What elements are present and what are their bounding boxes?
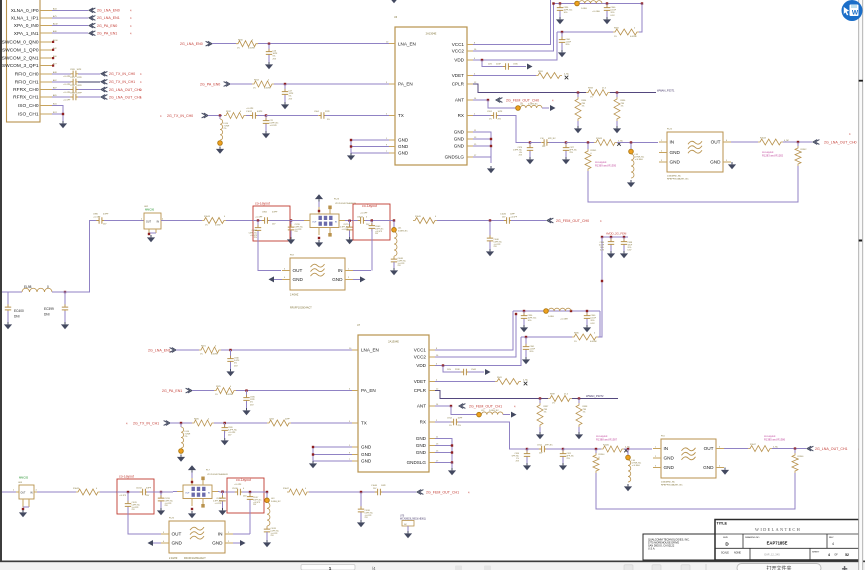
svg-text:U70: U70	[400, 516, 405, 518]
wire RX riser b	[458, 422, 527, 449]
ground C9721	[346, 237, 354, 244]
svg-text:2G_LNA_OUT_CH1: 2G_LNA_OUT_CH1	[815, 447, 848, 451]
resistor R1043b	[73, 488, 100, 495]
wire FL8 in	[353, 270, 371, 272]
ground C940 top	[603, 17, 611, 24]
svg-text:LNA_EN: LNA_EN	[361, 348, 379, 353]
ground L34	[627, 180, 635, 187]
capacitor C985 shunt	[249, 221, 281, 271]
resistor R1344 shunt	[593, 449, 605, 473]
resistor R941 VDET	[495, 377, 529, 384]
ground U7 GNDSLG	[448, 468, 456, 475]
svg-text:10PF: 10PF	[498, 111, 504, 113]
svg-text:REV: REV	[829, 537, 834, 539]
net MMC05 label	[19, 476, 29, 480]
svg-text:FL25: FL25	[169, 518, 175, 520]
sheet cell	[812, 552, 849, 557]
svg-text:GND: GND	[664, 456, 675, 461]
svg-text:+/-0.5PF: +/-0.5PF	[510, 216, 518, 218]
ground C9720	[287, 237, 295, 244]
offpage arrow VDD	[527, 64, 533, 70]
svg-text:XPA_0_IN0: XPA_0_IN0	[14, 23, 39, 29]
svg-text:VDET: VDET	[452, 73, 464, 78]
resistor R936	[614, 93, 626, 126]
ground C936b rail	[520, 325, 528, 332]
wire LNA_EN1	[221, 349, 352, 351]
svg-text:EC399: EC399	[44, 307, 54, 311]
svg-text:co-Layout: co-Layout	[764, 434, 776, 438]
svg-text:C1016: C1016	[232, 488, 238, 490]
wire to co-layout A	[100, 491, 117, 493]
op-amp U7 FEM 2A1304E	[349, 324, 439, 472]
svg-text:GND: GND	[361, 445, 372, 450]
capacitor C1036 shunt	[358, 492, 374, 520]
co-layout note R1283	[762, 150, 784, 157]
svg-text:R1385 and R1386: R1385 and R1386	[764, 437, 786, 441]
resistor R1341 shunt	[585, 143, 597, 172]
ground C910	[523, 463, 531, 470]
resistor R921	[199, 346, 221, 356]
capacitor C939b shunt	[222, 423, 238, 438]
wire boxA-balun	[154, 491, 177, 493]
svg-text:1%: 1%	[253, 88, 256, 90]
resistor R937	[537, 399, 549, 433]
capacitor C1017 shunt	[247, 492, 262, 534]
svg-text:22UF: 22UF	[496, 64, 502, 66]
offpage arrow ANT	[550, 105, 556, 111]
svg-text:1%: 1%	[590, 97, 593, 99]
ground C9727	[218, 508, 226, 515]
capacitor C932 / net 2G_LNA_OUT_CH0	[52, 85, 142, 94]
svg-text:1.0NH: 1.0NH	[548, 316, 554, 318]
wire FL25 gnd right	[233, 540, 246, 546]
svg-text:4: 4	[828, 553, 830, 557]
wire LNA_EN	[258, 43, 389, 45]
wire VCC1	[473, 0, 551, 45]
svg-text:OF: OF	[834, 553, 838, 556]
connector pin SWCOM_3_QP1	[2, 63, 57, 69]
ground U7 left	[309, 461, 317, 468]
resistor R1345	[601, 444, 631, 452]
svg-text:AVDD_2G_FEM: AVDD_2G_FEM	[606, 232, 627, 236]
svg-text:5.6NH_NC: 5.6NH_NC	[271, 501, 281, 503]
inductor L1 rail	[575, 1, 602, 13]
svg-text:GND: GND	[361, 452, 372, 457]
svg-text:GND: GND	[454, 137, 465, 142]
ground C976	[526, 157, 534, 164]
svg-text:VCC1: VCC1	[414, 348, 427, 353]
wire net 2G_PA_EN1	[52, 31, 132, 36]
filter FL8	[282, 255, 353, 291]
svg-text:2G_TX_IN_CH1: 2G_TX_IN_CH1	[133, 421, 159, 425]
svg-text:22PF: 22PF	[285, 419, 291, 421]
node SWCOM SWCOM_3_QP1	[52, 65, 54, 67]
wire FL8 gnd right	[353, 276, 366, 282]
wire VDD riser	[473, 32, 557, 60]
svg-text:0: 0	[47, 285, 49, 289]
svg-text:2%: 2%	[224, 128, 227, 130]
scrollbar tick 1	[859, 80, 863, 82]
resistor R1047b	[283, 488, 309, 495]
capacitor EC399	[44, 291, 68, 322]
svg-text:OUT: OUT	[312, 222, 317, 224]
svg-text:GNDSLG: GNDSLG	[407, 460, 427, 465]
capacitor C1040 shunt	[487, 221, 503, 250]
svg-text:2G_LNA_OUT_CH1: 2G_LNA_OUT_CH1	[109, 95, 142, 99]
connector pin ISO_CH1	[18, 112, 57, 118]
ground C936 avdd	[607, 251, 615, 258]
svg-text:20%: 20%	[530, 351, 534, 353]
svg-text:co-Layout: co-Layout	[762, 150, 774, 154]
ground C945b	[242, 408, 250, 415]
resistor R1047o	[748, 444, 779, 451]
ground ISO	[59, 121, 67, 128]
resistor R913	[252, 80, 274, 90]
ground U62	[147, 235, 155, 242]
drawing no cell	[745, 536, 788, 546]
svg-text:2.0NH_NC: 2.0NH_NC	[489, 410, 499, 412]
svg-text:1%: 1%	[449, 425, 452, 427]
svg-text:4_NC: 4_NC	[564, 73, 570, 75]
svg-text:CPLR: CPLR	[452, 82, 465, 87]
svg-text:GND: GND	[398, 144, 409, 149]
ground balun	[315, 240, 323, 247]
svg-text:➕: ➕	[842, 566, 848, 570]
inductor L31	[488, 100, 549, 110]
connector pin SWCOM_1_QP0	[2, 47, 57, 53]
wire TX	[266, 115, 318, 117]
ground U63	[19, 510, 27, 517]
ground C1036	[357, 520, 365, 527]
wire RX 2	[530, 142, 541, 144]
capacitor C984	[253, 212, 290, 226]
wire RX 3	[566, 141, 594, 143]
connector pin RFRX_CH1	[13, 94, 57, 101]
inductor L36 shunt	[626, 449, 642, 482]
svg-text:2A1304E: 2A1304E	[426, 32, 437, 36]
co-layout note top	[595, 160, 617, 167]
svg-text:2430MHZ_NC: 2430MHZ_NC	[667, 176, 681, 178]
ground balun b	[188, 511, 196, 518]
wire bottom rail	[513, 310, 600, 315]
net 2G_TX_IN_CH0 in	[160, 113, 222, 118]
offpage arrow ANT b	[511, 412, 517, 418]
ground U6 GNDSLG	[487, 166, 495, 173]
wire CPLR rail	[473, 84, 656, 94]
svg-text:2G_PA_EN0: 2G_PA_EN0	[200, 82, 220, 86]
svg-text:ANT: ANT	[417, 404, 426, 409]
svg-text:2.4GHZ: 2.4GHZ	[169, 557, 178, 560]
resistor R910	[236, 39, 258, 49]
wire VDET	[473, 75, 536, 77]
wire balun-box2	[345, 220, 353, 222]
svg-text:2G_TX_IN_CH1: 2G_TX_IN_CH1	[109, 80, 135, 84]
ground C936 top	[556, 17, 564, 24]
blue overlay icon	[842, 0, 863, 21]
svg-text:RFBPF3516A39T_NC: RFBPF3516A39T_NC	[667, 178, 689, 181]
ground C938 avdd	[620, 251, 628, 258]
component U70	[400, 516, 426, 532]
company block	[648, 539, 690, 551]
svg-text:R1343: R1343	[596, 138, 603, 140]
svg-text:GND: GND	[670, 150, 681, 155]
svg-text:RFRX_CH0: RFRX_CH0	[13, 87, 39, 93]
wire RX b4	[624, 448, 652, 450]
svg-text:0.8PF: 0.8PF	[146, 488, 152, 490]
svg-text:2G_FEM_OUT_CH0: 2G_FEM_OUT_CH0	[556, 219, 589, 223]
co-layout box 2	[353, 204, 390, 240]
wire net 2G_LNA_EN0	[52, 8, 132, 13]
capacitor C936 avdd	[599, 237, 614, 252]
svg-text:ANT: ANT	[455, 98, 464, 103]
title block frame	[643, 520, 859, 561]
svg-text:1.0NH: 1.0NH	[581, 8, 587, 10]
capacitor C9727 shunt	[213, 491, 226, 509]
svg-text:W: W	[852, 10, 859, 17]
svg-text:打开文件夹: 打开文件夹	[766, 565, 791, 570]
resistor R939	[548, 394, 572, 405]
svg-text:OUT: OUT	[185, 493, 190, 495]
connector pin RFIO_CH0	[15, 71, 58, 78]
wire box1-balun	[290, 220, 304, 222]
svg-text:1%: 1%	[215, 394, 218, 396]
svg-text:+/-0.1PF: +/-0.1PF	[215, 503, 223, 505]
net WWAN_P33T1	[657, 88, 675, 92]
wire FL6 out	[724, 448, 748, 450]
svg-text:0.8PF: 0.8PF	[77, 85, 83, 87]
svg-text:GND: GND	[416, 436, 427, 441]
svg-text:1: 1	[329, 566, 332, 570]
wire VCC1 b	[435, 311, 513, 350]
svg-text:R1047: R1047	[750, 444, 757, 446]
wire FL8 gnd left	[269, 276, 283, 282]
svg-text:OUT: OUT	[146, 221, 152, 224]
svg-text:SWCOM_1_QP0: SWCOM_1_QP0	[2, 47, 39, 53]
capacitor C924	[487, 111, 503, 120]
svg-text:EC400: EC400	[14, 309, 24, 313]
toolbar page count	[372, 566, 376, 570]
inductor L34 shunt	[629, 143, 645, 179]
svg-text:+/-0.1NH: +/-0.1NH	[592, 11, 600, 13]
svg-text:2G_FEM_OUT_CH1: 2G_FEM_OUT_CH1	[469, 404, 502, 408]
svg-text:U.S.A.: U.S.A.	[648, 548, 656, 551]
wire PA_EN	[274, 83, 389, 85]
svg-text:10PF: 10PF	[510, 214, 516, 216]
wire boxB exit	[264, 491, 268, 493]
svg-text:2.0NH_NC: 2.0NH_NC	[528, 104, 538, 106]
svg-text:1%: 1%	[489, 118, 492, 120]
svg-text:2G_PA_EN1: 2G_PA_EN1	[97, 32, 117, 36]
capacitor C921 / net 2G_TX_IN_CH1	[52, 77, 142, 86]
capacitor C940b	[227, 350, 240, 369]
ground FL22	[728, 162, 736, 169]
svg-text:GNDSLG: GNDSLG	[445, 155, 465, 160]
svg-text:10PF: 10PF	[77, 69, 83, 71]
ground C941b	[522, 357, 530, 364]
co-layout note R1385	[764, 434, 786, 441]
svg-text:NONE: NONE	[734, 552, 741, 555]
svg-text:10PF: 10PF	[381, 485, 387, 487]
component U63	[13, 482, 38, 510]
node SWCOM SWCOM_1_QP0	[52, 49, 54, 51]
wire top rail	[552, 2, 643, 4]
wire RX out	[473, 115, 491, 117]
resistor R935	[521, 311, 600, 343]
wire ANT b	[435, 404, 516, 409]
svg-text:2G_FEM_OUT_CH0: 2G_FEM_OUT_CH0	[506, 98, 539, 102]
svg-text:2G_PA_EN0: 2G_PA_EN0	[97, 24, 117, 28]
wire box2 exit	[390, 219, 395, 221]
wire RX b3	[563, 448, 601, 450]
inductor L32	[451, 406, 510, 417]
svg-text:ISO_CH1: ISO_CH1	[18, 112, 39, 118]
net 2G_PA_EN0 in	[200, 82, 252, 87]
svg-text:R1283 and R1282: R1283 and R1282	[762, 153, 784, 157]
svg-text:1.2PF: 1.2PF	[77, 77, 83, 79]
ground top edge	[390, 0, 398, 3]
svg-text:OUT: OUT	[704, 446, 714, 451]
wire TX1 a	[214, 422, 267, 424]
svg-text:1%: 1%	[544, 412, 547, 414]
svg-text:WWAN_P33T1: WWAN_P33T1	[657, 88, 675, 92]
inductor L2 rail	[544, 308, 571, 320]
svg-text:R1388 and R1387: R1388 and R1387	[596, 437, 618, 441]
svg-text:0.063W: 0.063W	[630, 36, 637, 38]
wire chain	[437, 219, 504, 221]
resistor R1043	[202, 216, 226, 226]
svg-text:4_NC: 4_NC	[523, 379, 529, 381]
svg-text:C1012: C1012	[246, 111, 253, 113]
svg-text:C1046: C1046	[371, 485, 378, 487]
svg-text:SWCOM_0_QN0: SWCOM_0_QN0	[2, 40, 39, 46]
resistor R912	[224, 111, 246, 118]
wire RX riser	[498, 116, 530, 143]
svg-text:52: 52	[845, 553, 849, 557]
svg-text:DNI: DNI	[14, 315, 20, 319]
filter FL25	[161, 518, 233, 554]
ground C21	[262, 131, 270, 138]
wire input CH1	[0, 491, 16, 493]
connector pin XPA_0_IN0	[14, 23, 59, 30]
svg-text:R1369 and R1395: R1369 and R1395	[595, 163, 617, 167]
svg-text:ISO_CH0: ISO_CH0	[18, 103, 39, 109]
svg-text:2G_LNA_EN0: 2G_LNA_EN0	[97, 9, 120, 13]
resistor R932	[557, 4, 642, 39]
ground U70	[404, 531, 412, 538]
svg-text:1%: 1%	[205, 225, 208, 227]
co-layout box A	[117, 475, 154, 515]
wire VDD riser b	[435, 337, 521, 366]
svg-text:WIDELANTECH: WIDELANTECH	[755, 527, 801, 532]
svg-text:VCC1: VCC1	[452, 42, 465, 47]
capacitor C910 shunt	[512, 448, 530, 463]
capacitor C911 shunt	[560, 448, 575, 463]
svg-text:+/-0.1PF: +/-0.1PF	[93, 216, 101, 218]
svg-text:2G_LNA_EN1: 2G_LNA_EN1	[148, 348, 171, 352]
svg-text:R1043: R1043	[204, 216, 211, 218]
capacitor C945b	[243, 391, 255, 408]
no-connect VDET b	[524, 382, 528, 386]
capacitor C1018	[264, 526, 280, 540]
svg-text:0.063W: 0.063W	[264, 88, 271, 90]
svg-text:co-Layout: co-Layout	[119, 475, 134, 479]
node SWCOM SWCOM_2_QN1	[52, 57, 54, 59]
wire RX 4	[617, 141, 658, 143]
ground R937	[536, 432, 544, 439]
window left border	[0, 0, 2, 562]
connector pin XPA_1_IN1	[14, 30, 58, 37]
svg-text:IN: IN	[218, 532, 223, 537]
svg-text:PA_EN: PA_EN	[361, 388, 376, 393]
svg-text:IN: IN	[30, 493, 33, 495]
capacitor C9043 shunt	[369, 221, 384, 271]
wire U7 right GND	[435, 439, 453, 469]
net MMC06 label	[145, 208, 155, 212]
svg-text:RFIO_CH1: RFIO_CH1	[15, 79, 39, 85]
capacitor C904 series	[314, 111, 389, 121]
wire FL22 out	[731, 141, 758, 143]
inductor L43	[265, 492, 282, 526]
svg-text:+/-0.1PF: +/-0.1PF	[360, 213, 368, 215]
wire FL25 in	[233, 533, 250, 535]
net 2G_LNA_OUT_CH1	[815, 447, 860, 451]
capacitor C1016	[227, 484, 264, 497]
capacitor C938 avdd	[621, 237, 633, 252]
svg-text:co-Layout: co-Layout	[255, 202, 270, 206]
svg-text:co-Layout: co-Layout	[596, 434, 608, 438]
no-connect R1345	[624, 449, 628, 453]
svg-text:RX: RX	[420, 420, 426, 425]
svg-text:10PF: 10PF	[458, 418, 464, 420]
wire VDD branch	[481, 59, 504, 67]
svg-text:FL23: FL23	[334, 199, 340, 201]
svg-text:WWAN_P33T2: WWAN_P33T2	[586, 394, 604, 398]
resistor R1346	[792, 449, 804, 473]
ground C977	[562, 157, 570, 164]
svg-text:DRAWING NO: DRAWING NO	[745, 536, 760, 539]
svg-text:GND: GND	[703, 465, 714, 470]
svg-text:R1045: R1045	[415, 216, 422, 218]
no-connect R1343	[617, 142, 621, 146]
svg-text:10%: 10%	[528, 320, 532, 322]
ground R936	[613, 126, 621, 133]
capacitor C944b	[447, 369, 484, 375]
svg-text:10%: 10%	[564, 12, 568, 14]
ground R934	[574, 126, 582, 133]
svg-text:TX: TX	[398, 113, 404, 118]
svg-text:1%: 1%	[614, 36, 617, 38]
toolbar zoom buttons	[455, 566, 491, 570]
net 2G_FEM_OUT_CH0 mid	[556, 219, 602, 223]
capacitor C940c rail	[584, 310, 597, 325]
net 2G_TX_IN_CH1 in	[126, 421, 192, 426]
rev cell	[829, 537, 834, 546]
connector pin ISO_CH0	[18, 103, 57, 109]
wire U7 left GND	[312, 446, 352, 461]
wire ISO_CH0/ISO_CH1	[52, 106, 64, 122]
wire co-layout loop bottom	[596, 473, 795, 509]
svg-text:+/-0.1PF: +/-0.1PF	[270, 125, 278, 127]
ground R938	[575, 432, 583, 439]
svg-text:VDET: VDET	[414, 379, 426, 384]
svg-text:C1046: C1046	[500, 214, 507, 216]
connector pin SWCOM_0_QN0	[2, 39, 59, 46]
resistor R926	[192, 419, 214, 426]
svg-text:+/-0.1PF: +/-0.1PF	[119, 495, 127, 497]
svg-text:0.063W: 0.063W	[248, 47, 255, 49]
net 2G_LNA_EN0 in	[180, 41, 236, 46]
capacitor C936 top	[557, 4, 573, 18]
